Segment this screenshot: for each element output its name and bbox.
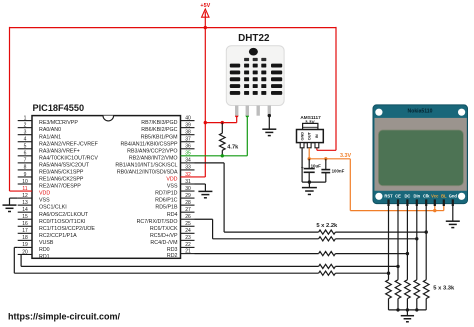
svg-text:RB7/KBI3/PGD: RB7/KBI3/PGD — [141, 120, 177, 126]
svg-text:4: 4 — [24, 137, 27, 143]
resistor 2.2k CE — [319, 264, 336, 268]
node DC junction — [406, 252, 409, 255]
node bus junction — [415, 308, 418, 311]
svg-text:21: 21 — [185, 248, 191, 254]
svg-text:PIC18F4550: PIC18F4550 — [33, 103, 85, 113]
svg-text:RB0/AN12/INT0/SDI/SDA: RB0/AN12/INT0/SDI/SDA — [117, 170, 178, 176]
pin 17 RC2/CCP1/P1A — [18, 232, 32, 234]
node RST junction — [387, 272, 390, 275]
pin 4 RA2/AN2/VREF-/CVREF — [18, 141, 32, 143]
ground VSS left — [3, 204, 17, 206]
svg-text:3.3V: 3.3V — [340, 153, 351, 159]
svg-text:Clk: Clk — [423, 193, 430, 198]
wire VSS pin12 to ground — [10, 197, 18, 199]
wire RD1 pin20 to CE row — [20, 254, 22, 266]
svg-text:RA3/AN3/VREF+: RA3/AN3/VREF+ — [39, 148, 80, 154]
wire SCK RB1 pin34 to Clk row — [195, 162, 225, 164]
svg-text:OSC1/CLKI: OSC1/CLKI — [39, 205, 67, 211]
wire VSS pin31 to ground — [195, 183, 206, 185]
svg-text:14: 14 — [22, 207, 28, 213]
svg-text:RC6/TX/CK: RC6/TX/CK — [150, 226, 178, 232]
pin 3 RA1/AN1 — [18, 134, 32, 136]
wire to regulator ground — [308, 182, 310, 187]
wire Din row left segment — [213, 238, 319, 240]
wire LCD CE vertical — [397, 206, 399, 280]
wire DC row left segment — [195, 253, 319, 255]
pin 29 RD6/P1C — [181, 197, 195, 199]
resistor 3.3k #1 — [386, 280, 392, 299]
svg-text:36: 36 — [185, 144, 191, 150]
ground VSS right — [198, 190, 212, 192]
wire BL to 3.3V — [443, 203, 445, 211]
pin 9 RE1/AN6/CK2SPP — [18, 176, 32, 178]
svg-text:34: 34 — [185, 158, 191, 164]
svg-text:20: 20 — [22, 249, 28, 255]
svg-text:3: 3 — [24, 129, 27, 135]
pin 26 RC7/RX/DT/SDO — [181, 218, 195, 220]
svg-text:RD2: RD2 — [167, 253, 178, 259]
ground LCD — [446, 220, 460, 222]
pin 18 VUSB — [18, 239, 32, 241]
resistor 3.3k #4 — [414, 280, 420, 299]
svg-text:DC: DC — [404, 193, 410, 198]
svg-text:+5V: +5V — [200, 3, 210, 9]
svg-text:6: 6 — [24, 151, 27, 157]
pin 33 RB0/AN12/INT0/SDI/SDA — [181, 169, 195, 171]
svg-text:17: 17 — [22, 228, 28, 234]
ground regulator — [302, 187, 317, 189]
svg-text:1: 1 — [24, 115, 27, 121]
node red dot DHT pin1 — [235, 114, 238, 117]
pin 6 RA4/T0CKI/C1OUT/RCV — [18, 155, 32, 157]
svg-text:RE0/AN5/CK1SPP: RE0/AN5/CK1SPP — [39, 170, 84, 176]
svg-text:29: 29 — [185, 193, 191, 199]
svg-text:26: 26 — [185, 214, 191, 220]
svg-text:https://simple-circuit.com/: https://simple-circuit.com/ — [8, 312, 121, 322]
svg-text:RA6/OSC2/CLKOUT: RA6/OSC2/CLKOUT — [39, 212, 89, 218]
node green dot 4.7k bottom — [221, 154, 224, 157]
pin 40 RB7/KBI3/PGD — [181, 120, 195, 122]
sensor DHT22 body — [226, 46, 284, 106]
node 3.3V junction at 10uF — [308, 157, 311, 160]
wire CE row left segment — [21, 265, 319, 267]
svg-text:RB4/AN11/KBI0/CSSPP: RB4/AN11/KBI0/CSSPP — [120, 141, 177, 147]
svg-text:13: 13 — [22, 200, 28, 206]
wire SDO RC7 pin26 to Din row — [195, 218, 213, 220]
svg-text:RC2/CCP1/P1A: RC2/CCP1/P1A — [39, 233, 77, 239]
wire LCD Gnd to ground — [452, 206, 454, 222]
pin 34 RB1/AN10/INT1/SCK/SCL — [181, 162, 195, 164]
node bus junction — [406, 308, 409, 311]
svg-text:5: 5 — [24, 144, 27, 150]
pin 22 RD3 — [181, 246, 195, 248]
wire AMS1117 GND to cap bus — [301, 148, 303, 182]
node green dot DHT pin2 — [246, 114, 249, 117]
svg-text:2: 2 — [24, 122, 27, 128]
svg-text:22: 22 — [185, 242, 191, 248]
svg-text:RC1/T1OSI/CCP2/UOE: RC1/T1OSI/CCP2/UOE — [39, 226, 95, 232]
wire LCD Clk vertical — [425, 206, 427, 280]
wire LCD RST vertical — [388, 206, 390, 280]
wire bus to ground — [406, 310, 408, 316]
svg-text:RE3/MCLR/VPP: RE3/MCLR/VPP — [39, 120, 78, 126]
wire Clk row right segment — [335, 231, 426, 233]
svg-text:15: 15 — [22, 214, 28, 220]
node Clk junction — [425, 230, 428, 233]
svg-text:RA5/AN4/SS/C2OUT: RA5/AN4/SS/C2OUT — [39, 162, 90, 168]
svg-text:RB5/KBI1/PGM: RB5/KBI1/PGM — [141, 134, 178, 140]
wire 3.3V from AMS1117 OUT — [308, 148, 310, 159]
svg-text:40: 40 — [185, 115, 191, 121]
svg-text:3.3V: 3.3V — [305, 119, 316, 124]
pin 21 RD2 — [181, 253, 195, 255]
resistor 2.2k RST — [319, 271, 336, 275]
wire RST row right segment — [335, 272, 388, 274]
svg-text:RB6/KBI2/PGC: RB6/KBI2/PGC — [141, 127, 177, 133]
svg-text:RE2/AN7/OESPP: RE2/AN7/OESPP — [39, 184, 81, 190]
svg-text:Din: Din — [413, 193, 420, 198]
pin 24 RC5/D+/VP — [181, 232, 195, 234]
svg-text:VDD: VDD — [166, 177, 177, 183]
pin 12 VSS — [18, 197, 32, 199]
capacitor C2 100nF — [325, 159, 327, 169]
svg-text:RD3: RD3 — [167, 247, 178, 253]
wire DHT22 pin 4 to ground — [268, 114, 271, 117]
svg-text:OUT: OUT — [306, 131, 311, 140]
svg-text:8: 8 — [24, 165, 27, 171]
svg-text:23: 23 — [185, 235, 191, 241]
svg-text:RC4/D-/VM: RC4/D-/VM — [150, 240, 177, 246]
resistor 3.3k #3 — [405, 280, 411, 299]
svg-text:18: 18 — [22, 235, 28, 241]
pin 39 RB6/KBI2/PGC — [181, 127, 195, 129]
svg-text:RA2/AN2/VREF-/CVREF: RA2/AN2/VREF-/CVREF — [39, 141, 99, 147]
svg-text:7: 7 — [24, 158, 27, 164]
svg-text:38: 38 — [185, 129, 191, 135]
pin 19 RD0 — [18, 246, 32, 248]
svg-text:RB2/AN8/INT2/VMO: RB2/AN8/INT2/VMO — [129, 155, 178, 161]
pin 20 RD1 — [18, 253, 32, 255]
pin 14 RA6/OSC2/CLKOUT — [18, 211, 32, 213]
svg-text:5 x 2.2k: 5 x 2.2k — [316, 223, 338, 229]
wire red branch to DHT22 pin 1 — [205, 122, 236, 124]
pin 2 RA0/AN0 — [18, 127, 32, 129]
svg-text:RC0/T1OSO/T1CKI: RC0/T1OSO/T1CKI — [39, 219, 86, 225]
svg-text:100nF: 100nF — [332, 169, 345, 174]
capacitor C1 10uF — [308, 159, 310, 168]
svg-text:CE: CE — [395, 193, 401, 198]
svg-text:DHT22: DHT22 — [238, 33, 270, 44]
svg-text:RE1/AN6/CK2SPP: RE1/AN6/CK2SPP — [39, 177, 84, 183]
svg-text:VDD: VDD — [39, 191, 50, 197]
svg-text:VSS: VSS — [167, 184, 178, 190]
pin 10 RE2/AN7/OESPP — [18, 183, 32, 185]
node Din junction — [415, 237, 418, 240]
svg-text:RA4/T0CKI/C1OUT/RCV: RA4/T0CKI/C1OUT/RCV — [39, 155, 98, 161]
wire Din row right segment — [335, 238, 416, 240]
svg-text:RA0/AN0: RA0/AN0 — [39, 127, 61, 133]
pin 13 OSC1/CLKI — [18, 204, 32, 206]
pin 28 RD5/P1B — [181, 204, 195, 206]
pin 5 RA3/AN3/VREF+ — [18, 148, 32, 150]
pin 1 RE3/MCLR/VPP — [18, 120, 32, 122]
pin 15 RC0/T1OSO/T1CKI — [18, 218, 32, 220]
svg-text:GND: GND — [299, 132, 304, 141]
wire LCD Din vertical — [416, 206, 418, 280]
wire RD0 pin19 to RST row — [14, 246, 17, 248]
svg-text:RD4: RD4 — [167, 212, 178, 218]
svg-text:RD7/P1D: RD7/P1D — [155, 191, 178, 197]
svg-text:Gnd: Gnd — [449, 193, 458, 198]
svg-text:24: 24 — [185, 228, 191, 234]
resistor 2.2k DC — [319, 252, 336, 256]
node bus junction — [396, 308, 399, 311]
svg-text:Nokia5110: Nokia5110 — [408, 109, 433, 115]
svg-text:RD5/P1B: RD5/P1B — [155, 205, 178, 211]
svg-text:Vcc: Vcc — [431, 193, 439, 198]
pin 38 RB5/KBI1/PGM — [181, 134, 195, 136]
wire +5V left leg down to VDD pin 11 — [9, 27, 11, 191]
svg-text:19: 19 — [22, 242, 28, 248]
svg-text:RD6/P1C: RD6/P1C — [155, 198, 178, 204]
module LCD1 Nokia5110 PCB — [373, 105, 468, 204]
resistor 2.2k Din — [319, 237, 336, 241]
resistor 3.3k #2 — [395, 280, 401, 299]
pin 8 RE0/AN5/CK1SPP — [18, 169, 32, 171]
node cap ground junction — [308, 180, 311, 183]
svg-text:16: 16 — [22, 221, 28, 227]
svg-text:RC5/D+/VP: RC5/D+/VP — [150, 233, 178, 239]
svg-text:12: 12 — [22, 193, 28, 199]
wire +5V right leg to AMS1117 IN — [335, 27, 337, 150]
svg-text:RST: RST — [384, 193, 393, 198]
svg-text:IN: IN — [314, 134, 319, 138]
wire CE row right segment — [335, 265, 398, 267]
pin 7 RA5/AN4/SS/C2OUT — [18, 162, 32, 164]
node red junction at 4.7k rail — [204, 121, 207, 124]
node 3.3V junction at 100nF — [324, 157, 327, 160]
ground resistor bus — [401, 315, 414, 317]
svg-text:RB3/AN9/CCP2/VPO: RB3/AN9/CCP2/VPO — [127, 148, 177, 154]
svg-text:37: 37 — [185, 137, 191, 143]
svg-text:RA1/AN1: RA1/AN1 — [39, 134, 61, 140]
svg-text:30: 30 — [185, 186, 191, 192]
svg-text:33: 33 — [185, 165, 191, 171]
wire +5V rail top — [10, 27, 337, 29]
pin 16 RC1/T1OSI/CCP2/UOE — [18, 225, 32, 227]
resistor 2.2k Clk — [319, 230, 336, 234]
node red dot 4.7k top — [221, 121, 224, 124]
svg-text:10: 10 — [22, 179, 28, 185]
svg-text:28: 28 — [185, 200, 191, 206]
svg-text:RD0: RD0 — [39, 247, 50, 253]
wire LCD DC vertical — [406, 206, 408, 280]
wire DHT22 data (green) to RB2 pin 35 — [181, 155, 248, 157]
svg-text:9: 9 — [24, 172, 27, 178]
node CE junction — [396, 265, 399, 268]
wire resistor ground bus — [389, 309, 427, 311]
ground DHT22 — [262, 128, 276, 130]
pin 27 RD4 — [181, 211, 195, 213]
wire Vcc riser — [434, 203, 436, 211]
wire RST row left segment — [14, 272, 318, 274]
svg-text:BL: BL — [441, 193, 447, 198]
node +5V junction — [204, 26, 207, 29]
svg-text:5 x 3.3k: 5 x 3.3k — [433, 286, 455, 292]
svg-text:27: 27 — [185, 207, 191, 213]
pin 31 VSS — [181, 183, 195, 185]
pin 30 RD7/P1D — [181, 190, 195, 192]
wire Clk row left segment — [224, 231, 319, 233]
svg-text:VSS: VSS — [39, 198, 50, 204]
svg-text:39: 39 — [185, 122, 191, 128]
svg-text:RD1: RD1 — [39, 254, 50, 260]
wire +5V drop to DHT22 and VDD pin 32 — [204, 28, 206, 177]
wire DC row right segment — [335, 253, 407, 255]
resistor R1 4.7k pull-up — [221, 123, 223, 134]
pin 37 RB4/AN11/KBI0/CSSPP — [181, 141, 195, 143]
node orange pad dot BL — [442, 202, 445, 205]
svg-text:4.7k: 4.7k — [227, 145, 239, 151]
pin 25 RC6/TX/CK — [181, 225, 195, 227]
regulator U2 AMS1117-3.3 — [303, 123, 318, 129]
pin 23 RC4/D-/VM — [181, 239, 195, 241]
node orange pad dot Vcc — [433, 202, 436, 205]
svg-text:VUSB: VUSB — [39, 240, 54, 246]
svg-text:31: 31 — [185, 179, 191, 185]
pin 36 RB3/AN9/CCP2/VPO — [181, 148, 195, 150]
svg-text:10uF: 10uF — [311, 164, 322, 169]
node Vcc junction — [433, 209, 436, 212]
svg-text:RB1/AN10/INT1/SCK/SCL: RB1/AN10/INT1/SCK/SCL — [115, 162, 177, 168]
svg-text:25: 25 — [185, 221, 191, 227]
svg-text:RC7/RX/DT/SDO: RC7/RX/DT/SDO — [137, 219, 178, 225]
IC U1 PIC18F4550 microcontroller body — [32, 116, 181, 259]
resistor 3.3k #5 — [423, 280, 429, 299]
